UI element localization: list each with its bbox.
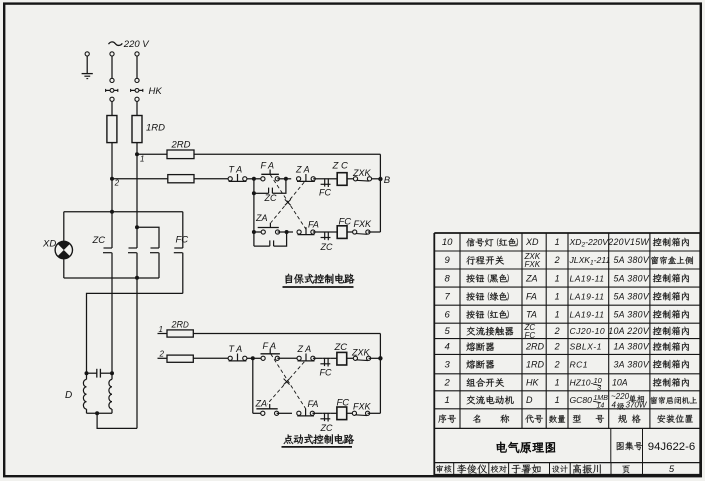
svg-text:ZC: ZC	[320, 423, 333, 433]
svg-text:9: 9	[445, 255, 451, 266]
label 2RD bottom	[171, 319, 190, 329]
svg-text:FC: FC	[320, 368, 332, 378]
svg-text:FXK: FXK	[354, 219, 373, 229]
svg-text:HK: HK	[149, 86, 163, 97]
wire FXK to rail bottom	[368, 412, 381, 414]
label Z A bottom	[297, 344, 312, 354]
wire K2 down	[136, 278, 138, 429]
title jog circuit	[282, 434, 354, 447]
wire L1 to node 2	[111, 143, 113, 179]
svg-text:F A: F A	[263, 341, 277, 351]
svg-text:ZC: ZC	[92, 235, 106, 246]
title block drawing name	[497, 441, 696, 453]
node K1	[135, 225, 139, 229]
svg-text:FA: FA	[308, 219, 319, 229]
wire right drop to B	[379, 154, 381, 232]
label F A bottom	[263, 341, 277, 351]
wire to coil ZC	[331, 178, 338, 180]
contact ZC self-hold branch	[252, 179, 286, 196]
label ZXK	[352, 168, 372, 178]
node 2	[110, 177, 120, 188]
label FA lower bottom	[308, 399, 319, 409]
svg-text:1: 1	[445, 395, 450, 406]
label ZA lower	[255, 213, 268, 223]
svg-text:XD: XD	[525, 237, 539, 247]
node M1	[85, 371, 89, 375]
label ~220V supply	[109, 39, 151, 50]
svg-text:2: 2	[554, 342, 560, 352]
wire 1 right	[194, 153, 380, 155]
svg-text:1: 1	[555, 395, 560, 405]
button FA (close)	[261, 170, 280, 181]
linkage cross mark top	[285, 199, 291, 205]
motor D winding right	[109, 373, 112, 413]
label Z C coil	[332, 161, 348, 172]
button FA lower bottom	[297, 409, 315, 416]
svg-text:220V15W: 220V15W	[607, 237, 649, 247]
fuse wire2 bottom circuit	[167, 355, 193, 362]
wire A1 to FA	[254, 178, 263, 180]
svg-text:5: 5	[669, 464, 675, 475]
limit switch ZXK bottom	[353, 356, 370, 360]
svg-text:3: 3	[445, 359, 451, 370]
svg-text:10A: 10A	[612, 378, 628, 388]
capacitor motor	[87, 369, 113, 378]
linkage cross mark bottom	[284, 379, 290, 385]
wire 1 left	[137, 153, 167, 155]
wire TA to node J1	[247, 357, 253, 359]
wire 2 to TA	[194, 178, 228, 180]
label T A	[229, 164, 243, 174]
svg-text:1MB: 1MB	[594, 395, 609, 402]
svg-text:LA19-11: LA19-11	[570, 273, 605, 283]
svg-text:1: 1	[555, 273, 560, 283]
svg-text:2: 2	[554, 255, 560, 265]
title self-holding circuit	[283, 274, 355, 287]
node 1	[135, 152, 144, 163]
label FXK bottom	[353, 401, 372, 411]
fuse 2RD top	[167, 150, 194, 159]
svg-text:5A 380V: 5A 380V	[613, 255, 649, 265]
label FXK	[354, 219, 373, 229]
label ZA lower bottom	[255, 398, 268, 408]
lamp rail bottom	[64, 277, 159, 279]
svg-text:4: 4	[612, 400, 617, 409]
label FA lower	[308, 219, 319, 229]
svg-text:ZA: ZA	[525, 273, 538, 283]
svg-text:1: 1	[555, 291, 560, 301]
svg-text:ZC: ZC	[320, 242, 333, 252]
button TA bottom	[228, 354, 247, 361]
contact main 2	[128, 154, 137, 277]
label 2RD top	[171, 140, 191, 151]
svg-text:4: 4	[445, 342, 450, 353]
node J1	[251, 356, 255, 360]
wire 1 bottom left	[158, 333, 168, 335]
label Z A	[295, 164, 310, 174]
label FC interlock	[319, 187, 331, 197]
svg-text:FXK: FXK	[525, 260, 541, 269]
label 2 bottom	[159, 349, 165, 358]
wire L2 mid	[135, 97, 139, 115]
node M2	[110, 371, 114, 375]
svg-text:HK: HK	[526, 378, 539, 388]
label ZXK bottom	[351, 348, 371, 358]
label FC coil	[339, 216, 352, 227]
lamp rail top	[64, 210, 183, 214]
wire FA to node A2	[277, 178, 286, 180]
node J2	[378, 356, 382, 360]
svg-text:T A: T A	[229, 164, 243, 174]
button ZA lower (T-bar)	[258, 223, 280, 234]
svg-text:ZC: ZC	[334, 342, 348, 353]
wire to coil ZC bottom	[330, 357, 337, 359]
linkage dash ZA-ZA2	[271, 182, 304, 222]
svg-text:FC: FC	[319, 187, 331, 197]
svg-text:220 V: 220 V	[123, 39, 150, 50]
wire ZA2 to node A4	[278, 231, 287, 233]
wire to ZA2 bottom	[253, 412, 263, 414]
wire FA2 to ZC contact bottom	[312, 412, 322, 414]
linkage dash FA-FA2 bottom	[271, 354, 306, 409]
svg-text:ZC: ZC	[264, 193, 277, 203]
label HK	[149, 86, 163, 97]
wire A3 to ZA2	[254, 231, 263, 233]
svg-text:94J622-6: 94J622-6	[648, 441, 696, 453]
svg-text:5A 380V: 5A 380V	[613, 291, 649, 301]
fuse 2RD bottom	[167, 330, 193, 337]
label ZC self-hold	[264, 193, 277, 203]
svg-text:FC: FC	[339, 216, 352, 227]
table rows	[442, 237, 697, 410]
svg-text:Z A: Z A	[295, 164, 310, 174]
label 1RD	[146, 123, 165, 134]
svg-text:CJ20-10: CJ20-10	[570, 326, 606, 336]
svg-text:5A 380V: 5A 380V	[613, 273, 649, 283]
contact ZC interlock bottom	[320, 413, 330, 422]
label 1 bottom	[159, 325, 163, 334]
label ZC main	[92, 235, 106, 246]
svg-text:XD: XD	[42, 238, 56, 249]
svg-text:FA: FA	[526, 291, 537, 301]
label FC coil bottom	[337, 397, 350, 408]
svg-text:1: 1	[555, 237, 560, 247]
svg-text:2: 2	[554, 326, 560, 336]
wire A1 down to lower branch	[253, 193, 255, 232]
svg-text:370W: 370W	[626, 400, 648, 409]
label D motor	[65, 390, 72, 401]
svg-text:2: 2	[159, 349, 165, 358]
wire A4 to FA2	[287, 231, 293, 233]
svg-text:FXK: FXK	[353, 401, 372, 411]
wire ZXK to B	[372, 178, 381, 180]
svg-text:5A 380V: 5A 380V	[613, 309, 649, 319]
node B	[378, 175, 391, 186]
label T A bottom	[229, 344, 243, 354]
svg-text:1: 1	[555, 309, 560, 319]
label ZC interlock bottom	[320, 423, 333, 433]
motor bottom wire	[87, 411, 113, 415]
svg-text:LA19-11: LA19-11	[570, 309, 605, 319]
table grid	[434, 233, 700, 475]
svg-text:SBLX-1: SBLX-1	[570, 342, 602, 352]
coil FC	[337, 226, 347, 239]
wire node2 down to lamp rail	[111, 179, 113, 212]
contact FC interlock	[321, 178, 331, 187]
table header row	[438, 414, 693, 423]
limit switch ZXK	[353, 177, 371, 181]
wire coil FC to FXK	[347, 231, 355, 233]
limit switch FXK bottom	[352, 411, 369, 415]
wire coil to FXK bottom	[347, 412, 355, 414]
label XD	[42, 238, 56, 249]
node A4	[285, 230, 289, 234]
wire to coil FC	[331, 231, 338, 233]
label FC interlock bottom	[320, 368, 332, 378]
svg-text:ZA: ZA	[255, 398, 268, 408]
fuse 1RD pole 1	[107, 116, 117, 143]
contact main 3	[137, 227, 159, 278]
svg-text:3A 380V: 3A 380V	[613, 359, 649, 369]
svg-text:XD2-220V: XD2-220V	[569, 237, 610, 249]
wire 1 bottom right	[193, 333, 380, 335]
wire ZA to FC contact bottom	[313, 357, 322, 359]
svg-text:GC80: GC80	[570, 395, 593, 405]
svg-text:JLXK1-211: JLXK1-211	[569, 255, 611, 267]
motor D winding left	[83, 373, 86, 413]
linkage dash ZA-ZA2 bottom	[267, 362, 304, 404]
button ZA (open)	[297, 174, 316, 181]
svg-text:ZXK: ZXK	[351, 348, 371, 358]
svg-text:FA: FA	[308, 399, 319, 409]
svg-text:2RD: 2RD	[171, 319, 190, 329]
svg-text:10A 220V: 10A 220V	[608, 326, 650, 336]
wire to coil FC bottom	[330, 412, 337, 414]
motor return wire	[97, 413, 137, 428]
svg-text:2: 2	[554, 359, 560, 369]
fuse 1RD pole 2	[132, 116, 142, 143]
svg-text:2: 2	[444, 378, 451, 389]
wire TA to node A1	[247, 178, 254, 180]
svg-text:FC: FC	[176, 235, 189, 246]
button ZA bottom	[297, 354, 315, 361]
wire FXK to right rail	[368, 231, 381, 233]
linkage dash FA-FA2	[270, 175, 306, 230]
svg-text:T A: T A	[229, 344, 243, 354]
svg-text:2RD: 2RD	[171, 140, 191, 151]
button TA (stop)	[228, 174, 247, 181]
button FA bottom (T-bar)	[261, 349, 280, 360]
node A1	[252, 177, 256, 181]
wire L2 top	[135, 52, 139, 83]
wire L2 to node 1	[136, 143, 138, 155]
svg-text:14: 14	[597, 402, 605, 409]
button ZA lower bottom (T-bar)	[256, 404, 278, 415]
wire A2 to ZA	[286, 178, 291, 180]
wire ZXK to rail bottom	[369, 357, 381, 359]
wire coil ZC to ZXK	[347, 178, 356, 180]
coil ZC bottom	[337, 352, 347, 365]
svg-text:Z A: Z A	[297, 344, 312, 354]
svg-text:D: D	[526, 395, 533, 405]
switch HK pole 2	[131, 89, 143, 93]
wire 2 bottom left	[158, 357, 168, 359]
title block signature row	[436, 464, 675, 475]
coil FC bottom	[337, 407, 347, 420]
svg-text:ZXK: ZXK	[352, 168, 372, 178]
limit switch FXK	[353, 230, 370, 234]
svg-text:7: 7	[445, 291, 451, 302]
label FC main	[176, 235, 189, 246]
svg-text:1RD: 1RD	[146, 123, 165, 134]
svg-text:Z C: Z C	[332, 161, 348, 172]
svg-text:1: 1	[140, 154, 144, 163]
wire J1 to FA bottom	[253, 357, 263, 359]
coil ZC	[337, 173, 347, 186]
wire ZA to FC contact	[313, 178, 322, 180]
svg-text:8: 8	[445, 273, 451, 284]
svg-text:FC: FC	[337, 397, 350, 408]
svg-text:5: 5	[445, 326, 451, 337]
svg-text:LA19-11: LA19-11	[570, 291, 605, 301]
svg-text:1A 380V: 1A 380V	[613, 342, 649, 352]
wire L1 top	[110, 52, 114, 83]
wire coil to ZXK bottom	[347, 357, 356, 359]
right rail bottom circuit	[379, 334, 381, 414]
svg-text:2RD: 2RD	[525, 342, 545, 352]
contact FC interlock bottom	[320, 358, 330, 367]
ground	[82, 52, 93, 79]
wire FA to ZA bottom	[277, 357, 299, 359]
signal lamp XD	[55, 212, 72, 278]
wire FA2 to ZC contact	[313, 231, 323, 233]
label F A top	[261, 160, 275, 170]
label ZC interlock	[320, 242, 333, 252]
wire J1 down	[252, 358, 254, 413]
svg-text:1RD: 1RD	[526, 359, 545, 369]
svg-text:2: 2	[114, 178, 120, 187]
node A3	[252, 230, 256, 234]
svg-text:6: 6	[445, 309, 451, 320]
svg-text:10: 10	[442, 237, 453, 248]
svg-text:F A: F A	[261, 160, 275, 170]
wire 2 to TA bottom	[193, 357, 228, 359]
svg-text:1: 1	[555, 378, 560, 388]
contact ZC main 1	[103, 212, 112, 374]
fuse wire2 top circuit	[168, 175, 194, 183]
button FA lower	[297, 227, 315, 234]
node A2	[284, 177, 288, 181]
contact ZC interlock	[321, 232, 331, 241]
node K2	[135, 276, 139, 280]
svg-text:HZ10-: HZ10-	[570, 378, 594, 388]
label ZC coil bottom	[334, 342, 348, 353]
wire 2 left	[112, 178, 168, 180]
contact FC main 4	[174, 212, 183, 294]
contact FC self-hold branch	[254, 232, 287, 246]
svg-text:1: 1	[159, 325, 163, 334]
svg-text:RC1: RC1	[570, 359, 589, 369]
svg-text:TA: TA	[526, 309, 537, 319]
wire aux rail	[87, 293, 183, 373]
wire ZA2 to FA2 bottom	[277, 412, 292, 414]
svg-text:FC: FC	[525, 331, 536, 340]
svg-text:ZA: ZA	[255, 213, 268, 223]
svg-text:D: D	[65, 390, 72, 401]
wire L1 mid	[110, 97, 114, 115]
svg-text:B: B	[384, 175, 391, 186]
switch HK pole 1	[106, 89, 118, 93]
